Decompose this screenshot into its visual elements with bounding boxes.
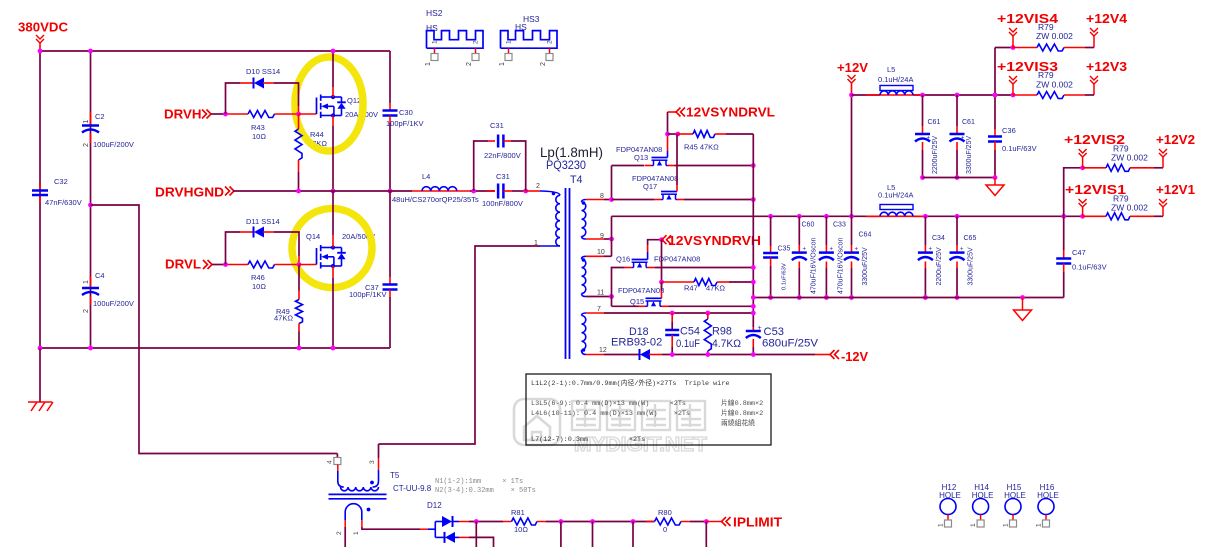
capacitor C32 [39,183,41,191]
transistor Q12 mosfet [316,98,318,115]
transistor Q13 mosfet [652,157,668,159]
svg-text:2: 2 [83,309,90,313]
svg-text:1: 1 [353,531,360,535]
svg-text:ZW 0.002: ZW 0.002 [1111,203,1148,213]
svg-text:ZW 0.002: ZW 0.002 [1111,153,1148,163]
svg-text:IPLIMIT: IPLIMIT [733,515,782,530]
transistor Q14 mosfet [316,248,318,265]
svg-text:Q14: Q14 [306,232,320,241]
resistor R47 [659,280,664,285]
T5 primary winding [338,471,344,487]
svg-text:100pF/1KV: 100pF/1KV [349,290,387,299]
svg-text:C31: C31 [490,121,504,130]
svg-text:R47: R47 [684,283,698,292]
heatsink HS2 shape [427,31,484,49]
node after R81 c [631,519,636,524]
port +12VIS3 chevron [993,93,998,98]
svg-text:C35: C35 [778,246,791,253]
capacitor C53 [752,327,754,331]
svg-text:DRVL: DRVL [165,257,201,272]
heatsink HS3 shape [501,31,558,49]
svg-text:C34: C34 [932,235,945,242]
svg-text:680uF/25V: 680uF/25V [762,338,819,350]
transformer T4 core [565,188,567,359]
resistor R46 [248,261,275,268]
port DRVHGND chevron [225,187,234,196]
transistor Q15 mosfet [646,297,662,299]
wire 12VSYNDRVL to gates [667,112,669,134]
svg-text:C4: C4 [95,271,105,280]
svg-text:CT-UU-9.8: CT-UU-9.8 [393,484,432,493]
resistor R44 [298,114,300,129]
svg-text:D10 SS14: D10 SS14 [246,67,280,76]
transformer T4 secondary 8-9 [582,202,586,236]
wire C31a branch 22nF [474,141,488,191]
svg-text:C61: C61 [962,119,975,126]
svg-text:380VDC: 380VDC [18,20,69,35]
svg-text:100uF/200V: 100uF/200V [93,140,134,149]
wire Q13 left leg [611,166,613,200]
svg-text:2: 2 [540,62,547,66]
svg-text:R80: R80 [658,508,672,517]
wire Q16 left leg [612,268,625,307]
wire D12 bottom out [459,536,469,538]
svg-text:C64: C64 [859,232,872,239]
T5 pin1 wire [361,520,363,527]
svg-text:R46: R46 [251,273,265,282]
ground bus vertical [752,134,754,327]
svg-text:+12V3: +12V3 [1086,59,1127,74]
svg-text:HS2: HS2 [426,8,443,18]
svg-text:+12V4: +12V4 [1086,11,1128,26]
node 380VDC corner [38,49,43,54]
svg-text:3300uF/25V: 3300uF/25V [862,247,869,285]
watermark logo box [514,399,560,445]
top bank ground rail [923,177,996,179]
svg-text:L4L6(10-11): 0.4 mm(D)×13 mm(W: L4L6(10-11): 0.4 mm(D)×13 mm(W) ×2Ts [531,410,690,418]
wire Q17 row right [684,199,753,201]
resistor R80 [646,521,655,523]
svg-text:2: 2 [336,531,343,535]
transformer T4 winding 12-7 [582,316,586,350]
port +12VIS1 chevron [1080,214,1085,219]
wire DRVL diode branch [226,232,241,265]
wire +12VIS2 feed [1064,168,1083,217]
svg-text:ZW 0.002: ZW 0.002 [1036,31,1073,41]
svg-text:10: 10 [597,249,605,256]
bottom rail wire [40,347,390,349]
wire Q16 row right [655,267,754,269]
port +12VIS4 chevron [1009,28,1017,36]
svg-text:R81: R81 [511,508,525,517]
inductor L4 [412,190,470,192]
port +12V4 chevron [1090,28,1098,36]
svg-text:R98: R98 [712,326,732,338]
svg-text:C61: C61 [928,119,941,126]
svg-text:PQ3230: PQ3230 [546,160,586,172]
svg-text:47KΩ: 47KΩ [274,314,293,323]
svg-text:Q13: Q13 [634,153,648,162]
wire gate lead Q12 [298,113,317,115]
svg-text:N1(1-2):1mm × 1Ts: N1(1-2):1mm × 1Ts [435,478,523,486]
svg-text:C31: C31 [496,172,510,181]
svg-text:C54: C54 [680,326,700,338]
svg-text:FDP047AN08: FDP047AN08 [618,286,664,295]
wire T4 pin2 stub [526,190,540,192]
svg-text:R45 47KΩ: R45 47KΩ [684,143,719,152]
bottom bank ground rail [753,297,1063,299]
svg-text:100uF/200V: 100uF/200V [93,299,134,308]
svg-text:HS: HS [426,23,438,33]
svg-text:C36: C36 [1002,126,1016,135]
resistor R45 [678,133,693,135]
svg-text:L4: L4 [422,172,430,181]
svg-text:2: 2 [547,40,554,44]
watermark chinese characters [572,401,705,430]
node after R80 [704,519,709,524]
wire pin12 D18 row -12V [586,354,604,356]
svg-text:2: 2 [536,183,540,190]
node gate Q14 [297,262,302,267]
port 12VSYNDRVH [659,237,664,242]
capacitor C33 [824,214,829,219]
wire Q14 source [332,266,334,278]
svg-text:0: 0 [663,525,667,534]
wire Q12 drain [332,51,334,87]
ground symbol bottom bank [1020,295,1025,300]
diode D10 [253,78,255,89]
wire Q13 gate [667,151,669,158]
svg-text:10Ω: 10Ω [252,282,266,291]
wire DRVH [211,113,226,115]
hole H12 symbol [940,499,956,515]
wire Q15 row right [669,305,754,307]
transistor Q17 mosfet [661,191,677,193]
wire Q15 gate lead [661,282,663,291]
svg-text:7: 7 [597,306,601,313]
diode pack D12 [420,528,428,530]
wire Q15 row left [612,305,639,307]
wire +12VIS4 row [994,48,996,96]
wire Q14 drain [331,189,336,194]
wire pin9 row [586,238,604,240]
midpoint to T5 wire [91,205,332,454]
svg-text:C32: C32 [54,177,68,186]
capacitor C34 [923,214,928,219]
T5 secondary half turn [345,504,362,520]
port +12V3 chevron [1090,76,1098,84]
diode D18 [639,349,641,360]
svg-text:1: 1 [425,62,432,66]
svg-text:+12V: +12V [837,60,868,75]
yellow highlight ellipse bottom [292,209,372,288]
svg-text:R44: R44 [310,130,324,139]
resistor R49 [298,265,300,291]
resistor R98 [707,313,709,319]
winding spec table [526,374,771,445]
svg-text:0.1uH/24A: 0.1uH/24A [878,191,913,200]
svg-text:22nF/800V: 22nF/800V [484,151,521,160]
svg-text:1: 1 [83,120,90,124]
port +12VIS2 chevron [1079,149,1087,157]
svg-text:T4: T4 [570,174,583,186]
svg-text:R79: R79 [1038,70,1054,80]
resistor R43 [248,111,275,118]
wire Q13 row right [675,165,754,167]
transistor Q16 mosfet [632,259,648,261]
svg-text:1: 1 [499,62,506,66]
wire Q16 gate [647,252,649,260]
port 12VSYNDRVL [668,111,677,113]
svg-text:片線0.8mm×2: 片線0.8mm×2 [721,398,763,408]
svg-text:C65: C65 [964,235,977,242]
svg-text:4: 4 [327,460,334,464]
capacitor C60 [797,214,802,219]
svg-text:片線0.8mm×2: 片線0.8mm×2 [721,408,763,418]
wire DRVHGND [233,190,412,192]
node gate Q12 [296,112,301,117]
svg-text:12: 12 [599,347,607,354]
svg-text:DRVH: DRVH [164,107,202,122]
wire center tap link [611,216,613,256]
svg-text:T5: T5 [390,471,400,480]
svg-text:ZW 0.002: ZW 0.002 [1036,80,1073,90]
svg-text:ERB93-02: ERB93-02 [611,337,662,349]
port +12V1 chevron [1159,199,1167,207]
svg-text:4.7KΩ: 4.7KΩ [712,338,741,350]
svg-text:D11 SS14: D11 SS14 [246,217,280,226]
svg-text:Q17: Q17 [643,182,657,191]
capacitor C47 [1061,214,1066,219]
svg-text:兩繞組花繞: 兩繞組花繞 [721,418,755,428]
svg-text:0.1uF: 0.1uF [676,338,700,350]
capacitor C54 [671,313,673,322]
svg-text:DRVHGND: DRVHGND [155,185,224,200]
wire D12 top branch down [475,522,477,548]
wire D10 to gate node [274,83,299,106]
svg-text:12VSYNDRVH: 12VSYNDRVH [668,233,761,248]
hole H14 symbol [973,499,989,515]
node T4 pin2 [523,189,528,194]
wire +12V feed vertical [851,95,853,216]
svg-text:0.1uF/63V: 0.1uF/63V [782,263,788,290]
svg-text:Q15: Q15 [630,297,644,306]
svg-text:C33: C33 [833,222,846,229]
resistor R79a [1013,47,1037,49]
node L4 right [471,189,476,194]
svg-text:12VSYNDRVL: 12VSYNDRVL [686,105,775,120]
resistor R81 [503,521,512,523]
svg-text:0.1uF/63V: 0.1uF/63V [1002,144,1037,153]
port DRVL chevron [203,260,212,269]
port -12V [815,354,830,356]
svg-text:3300uF/25V: 3300uF/25V [966,136,973,174]
node after R81 a [559,519,564,524]
wire D11 to gate node [274,232,299,256]
capacitor C31b 100nF [487,190,495,192]
svg-text:1: 1 [1036,523,1043,527]
port IPLIMIT [706,521,721,523]
wire Q17 gate [676,134,678,185]
wire pin8 row to Q17 [612,199,655,201]
svg-text:Q16: Q16 [616,255,630,264]
node after R81 b [590,519,595,524]
T5 pin2 wire [344,520,346,527]
wire DRVH diode branch [226,83,241,114]
main +12V mid rail [612,215,881,217]
svg-text:0.1uF/63V: 0.1uF/63V [1072,263,1107,272]
inductor L5b [880,205,913,210]
svg-text:+12V1: +12V1 [1156,182,1195,197]
svg-text:1: 1 [970,523,977,527]
svg-text:2: 2 [466,62,473,66]
capacitor C36 [993,93,998,98]
capacitor C30 branch [389,51,391,103]
svg-text:2: 2 [83,143,90,147]
svg-text:1: 1 [938,523,945,527]
T5 core [329,493,387,495]
svg-text:D12: D12 [427,501,442,510]
wire Q12 source [332,116,334,127]
node C2-C4 midpoint [88,203,93,208]
svg-text:Lp(1.8mH): Lp(1.8mH) [540,144,603,160]
T5 pin4 pad [331,453,337,455]
capacitor C2 [90,112,92,126]
inductor L5a [880,86,913,91]
svg-text:10Ω: 10Ω [252,132,266,141]
T5 pin3 wire [378,458,380,470]
top +12V rail [852,94,881,96]
svg-text:3: 3 [369,460,376,464]
svg-text:L7(12-7):0.3mm ×2Ts: L7(12-7):0.3mm ×2Ts [531,436,645,444]
svg-text:-12V: -12V [841,349,868,364]
capacitor C37 [388,189,393,194]
svg-text:100pF/1KV: 100pF/1KV [386,119,424,128]
svg-text:C30: C30 [399,108,413,117]
svg-text:2200uF/25V: 2200uF/25V [936,247,943,285]
transformer T4 primary [540,191,560,195]
svg-text:100nF/800V: 100nF/800V [482,199,523,208]
ground symbol earth [39,348,41,402]
port +12V [848,75,856,83]
yellow highlight ellipse top [295,57,363,151]
svg-text:2200uF/25V: 2200uF/25V [932,136,939,174]
svg-text:C60: C60 [802,222,815,229]
svg-text:2: 2 [473,40,480,44]
capacitor C65 [955,214,960,219]
svg-text:N2(3-4):0.32mm × 50Ts: N2(3-4):0.32mm × 50Ts [435,487,536,495]
port DRVH chevron [202,110,211,119]
svg-text:47nF/630V: 47nF/630V [45,198,82,207]
capacitor C4 [90,276,92,288]
svg-text:0.1uH/24A: 0.1uH/24A [878,75,913,84]
port +12V2 chevron [1159,149,1167,157]
capacitor C64 [849,214,854,219]
svg-text:48uH/CS270orQP25/35Ts: 48uH/CS270orQP25/35Ts [392,195,479,204]
hole H15 symbol [1005,499,1021,515]
svg-text:C53: C53 [764,326,785,338]
capacitor C61b [955,93,960,98]
svg-text:C47: C47 [1072,248,1086,257]
hole H16 symbol [1038,499,1054,515]
wire pin10 row [586,255,604,257]
svg-text:11: 11 [597,290,604,297]
svg-text:470uF/16V/Oscon: 470uF/16V/Oscon [811,237,818,294]
svg-text:1: 1 [432,40,439,44]
wire pin7 row [586,312,604,314]
capacitor C35 [768,214,773,219]
port 380VDC chevron [36,35,44,43]
ground symbol top bank [994,178,996,186]
svg-text:1: 1 [506,40,513,44]
transformer T4 secondary 10-11 [582,259,586,293]
left bus wire [39,51,41,348]
svg-text:L5: L5 [887,65,895,74]
wire Q13 row [612,165,645,167]
svg-text:3300uF/25V: 3300uF/25V [968,247,975,285]
svg-text:1: 1 [83,280,90,284]
svg-text:C2: C2 [95,112,105,121]
svg-text:10Ω: 10Ω [514,525,528,534]
wire T4 pin1 return [379,246,541,444]
wire 12VSYNDRVH to Q15 gate [661,240,663,290]
wire pin8 row [586,199,604,201]
svg-text:+12V2: +12V2 [1156,132,1195,147]
capacitor C61a [920,93,925,98]
top rail wire [40,50,390,52]
resistor R79d [1083,215,1106,217]
svg-text:L3L5(6-9): 0.4 mm(D)×13 mm(W): L3L5(6-9): 0.4 mm(D)×13 mm(W) ×2Ts [531,400,686,408]
wire gate lead Q14 [299,264,317,266]
resistor R79b [1013,94,1037,96]
svg-text:470uF/16V/Oscon: 470uF/16V/Oscon [838,237,845,294]
resistor R79c [1083,167,1106,169]
wire D12 top out [459,521,469,523]
wire DRVL [212,264,226,266]
svg-text:L1L2(2-1):0.7mm/0.9mm(内径/外径)×2: L1L2(2-1):0.7mm/0.9mm(内径/外径)×27Ts Triple… [531,378,730,388]
svg-text:R43: R43 [251,123,265,132]
diode D11 [253,227,255,238]
C2 branch wire [90,51,92,348]
svg-text:1: 1 [1003,523,1010,527]
wire pin11 row [586,296,612,298]
T4 primary phase dot [552,192,556,196]
